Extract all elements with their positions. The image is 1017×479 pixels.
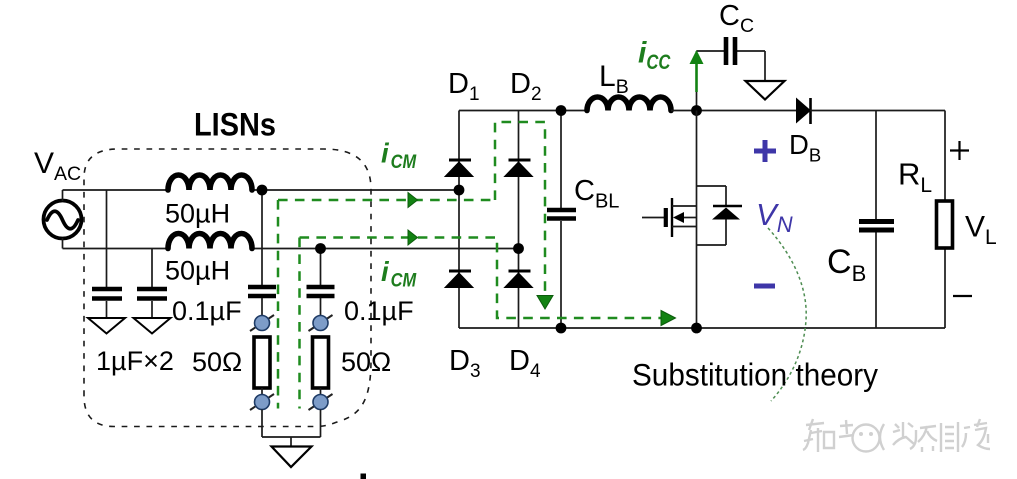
capacitor CB xyxy=(859,111,894,329)
wire bottom rail AC xyxy=(63,248,169,250)
arrow CM bottom1 xyxy=(408,230,418,245)
green CM vertical right xyxy=(298,238,301,409)
wire DB to out xyxy=(810,110,945,112)
capacitor CC xyxy=(726,37,735,65)
port connector top-left xyxy=(250,315,274,331)
svg-text:50Ω: 50Ω xyxy=(341,347,391,377)
svg-text:50Ω: 50Ω xyxy=(192,347,242,377)
mosfet Q xyxy=(642,111,697,329)
diode DB xyxy=(796,98,811,125)
svg-text:50µH: 50µH xyxy=(165,199,230,229)
label plus out xyxy=(950,141,969,160)
output right leg xyxy=(944,111,946,329)
AC source VAC xyxy=(44,190,82,249)
resistor RL xyxy=(937,201,953,248)
resistor 50ohm left xyxy=(254,337,270,388)
port connector bottom-left xyxy=(250,388,274,437)
svg-text:50µH: 50µH xyxy=(165,256,230,286)
watermark zhihu xyxy=(803,419,990,452)
wire 0.1uF branch left xyxy=(261,190,263,285)
label minus out xyxy=(953,295,972,297)
svg-text:0.1µF: 0.1µF xyxy=(344,296,414,326)
wire CC branch xyxy=(697,51,766,111)
inductor 50uH bottom xyxy=(168,234,252,249)
node boost xyxy=(691,105,702,116)
arrow CM down xyxy=(537,296,553,310)
port connector top-right xyxy=(309,315,333,331)
bridge top rail xyxy=(459,110,587,112)
wire LISN ground join xyxy=(262,437,321,447)
node top rail 0.1uF xyxy=(257,185,268,196)
svg-text:LISNs: LISNs xyxy=(194,107,276,143)
ground left 1uF xyxy=(88,318,125,334)
ground LISN measuring xyxy=(272,447,312,468)
wire 0.1uF branch right xyxy=(320,249,322,286)
arrow CM top xyxy=(408,193,418,208)
label minus VN xyxy=(754,284,775,289)
wire 1uF branch right xyxy=(151,249,153,288)
wire LB to node xyxy=(671,110,796,112)
body diode xyxy=(697,186,743,245)
bridge bottom rail xyxy=(459,327,945,329)
node bottom rail 0.1uF xyxy=(315,243,326,254)
bridge left leg xyxy=(458,111,460,329)
node CBL bottom xyxy=(556,323,567,334)
port connector bottom-right xyxy=(309,388,333,437)
node D1 top rail xyxy=(454,185,465,196)
green CM vertical left xyxy=(277,200,280,409)
inductor LB xyxy=(587,97,671,111)
bridge right leg xyxy=(518,111,520,329)
wire top rail AC xyxy=(63,189,169,191)
svg-text:0.1µF: 0.1µF xyxy=(172,296,242,326)
capacitor 0.1uF left xyxy=(248,287,276,316)
node D2 bottom rail xyxy=(513,243,524,254)
diode D1 xyxy=(445,160,473,177)
label plus VN xyxy=(754,140,776,162)
diode D4 xyxy=(505,271,533,288)
diode D3 xyxy=(445,271,473,288)
cropped text mark xyxy=(361,474,367,479)
capacitor CBL xyxy=(547,111,576,329)
arrow CM bottom2 xyxy=(661,311,676,326)
ground right 1uF xyxy=(134,318,171,334)
green CM path bottom xyxy=(300,238,664,319)
node source xyxy=(691,323,702,334)
ground CC xyxy=(746,81,785,100)
svg-text:1µF×2: 1µF×2 xyxy=(96,346,174,376)
resistor 50ohm right xyxy=(313,337,329,388)
node CBL top xyxy=(556,105,567,116)
inductor 50uH top xyxy=(168,175,252,190)
capacitor 0.1uF right xyxy=(307,287,335,316)
LISN boundary dashed box xyxy=(84,149,371,427)
green CM path top xyxy=(278,199,495,202)
capacitor 1uF right xyxy=(137,289,167,318)
diode D2 xyxy=(505,160,533,177)
capacitor 1uF left xyxy=(92,289,122,318)
arrow iCC xyxy=(690,50,704,92)
wire 1uF branch left xyxy=(106,190,108,287)
substitution curve xyxy=(768,228,806,401)
svg-text:Substitution theory: Substitution theory xyxy=(632,357,878,393)
